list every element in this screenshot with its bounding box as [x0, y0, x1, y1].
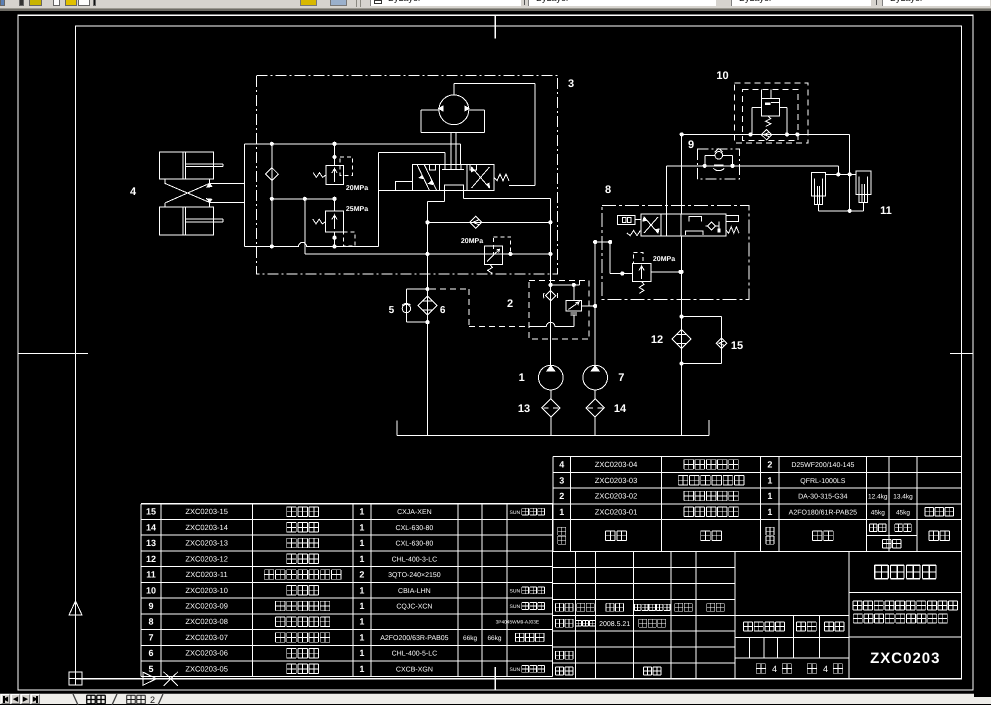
svg-text:1: 1: [559, 507, 564, 517]
svg-text:5: 5: [148, 664, 153, 674]
lift directional valve 6/3: [618, 214, 739, 236]
relief valve 25MPa (steering): [313, 199, 368, 247]
parts list table (items 5-15) grid: [141, 504, 553, 677]
wire motor feedback loop: [454, 84, 535, 186]
svg-text:9: 9: [148, 601, 153, 611]
label 10: [716, 70, 728, 82]
svg-text:1: 1: [359, 507, 364, 517]
centering tick right: [950, 353, 973, 355]
svg-text:SUN: SUN: [510, 604, 521, 610]
svg-text:12: 12: [651, 334, 663, 346]
relief valve 20MPa (lift): [633, 253, 683, 294]
label 5: [389, 305, 395, 316]
svg-text:ZXC0203-06: ZXC0203-06: [185, 649, 228, 658]
label 6: [440, 305, 446, 316]
steering cylinders 4 (double acting pair): [160, 152, 224, 235]
one-way throttle valve 9 dashed box: [698, 149, 740, 179]
balance valve 10 dashed boxes: [735, 83, 809, 143]
wire valve A-port bypass vertical: [377, 153, 379, 247]
svg-text:D25WF200/140-145: D25WF200/140-145: [791, 461, 854, 469]
wire top supply line: [244, 142, 460, 146]
svg-text:ZXC0203: ZXC0203: [870, 650, 940, 667]
top toolbar strip (cropped): [0, 0, 991, 11]
svg-text:ZXC0203-14: ZXC0203-14: [185, 523, 228, 532]
title block row 审核 label: [556, 651, 573, 659]
svg-text:DA-30-315-G34: DA-30-315-G34: [798, 493, 848, 500]
svg-text:4: 4: [823, 664, 828, 674]
centering tick bottom: [494, 667, 496, 690]
svg-text:2008.5.21: 2008.5.21: [599, 621, 630, 628]
telescopic lift cylinder left: [811, 173, 825, 211]
svg-text:7: 7: [618, 372, 624, 384]
label 11: [880, 205, 892, 217]
svg-text:ZXC0203-07: ZXC0203-07: [185, 633, 228, 642]
svg-text:6: 6: [440, 305, 446, 316]
svg-text:3: 3: [559, 475, 564, 485]
svg-text:4: 4: [772, 664, 777, 674]
label 13: [518, 403, 530, 415]
balance valve 10 internals: [752, 89, 787, 139]
svg-text:20MPa: 20MPa: [653, 256, 675, 263]
label 8: [605, 184, 611, 196]
svg-text:4: 4: [130, 186, 137, 198]
check valve on branch (box 3 left): [265, 144, 278, 249]
svg-text:1: 1: [767, 491, 772, 501]
UCS icon: [69, 601, 157, 685]
label 7: [618, 372, 624, 384]
svg-text:13: 13: [146, 538, 156, 548]
svg-text:14: 14: [614, 403, 627, 415]
label 2: [507, 298, 513, 310]
svg-text:10: 10: [146, 585, 156, 595]
svg-text:3P4045WM9-AJ03E: 3P4045WM9-AJ03E: [496, 620, 539, 626]
label 9: [688, 139, 694, 151]
svg-text:2: 2: [507, 298, 513, 310]
svg-text:1: 1: [519, 372, 525, 384]
svg-text:ZXC0203-01: ZXC0203-01: [595, 507, 638, 516]
wire lift valve return to tank: [680, 236, 684, 435]
svg-text:ZXC0203-04: ZXC0203-04: [595, 460, 638, 469]
svg-text:1: 1: [359, 538, 364, 548]
wire cylinder A port to bus: [210, 182, 245, 184]
bypass check valve 15: [682, 317, 727, 364]
svg-text:1: 1: [359, 522, 364, 532]
title block university name 长沙大学: [875, 565, 936, 579]
suction strainer 14: [586, 399, 604, 436]
svg-text:8: 8: [605, 184, 611, 196]
svg-text:ZXC0203-11: ZXC0203-11: [186, 570, 228, 579]
wire valve tank stubs: [428, 185, 551, 201]
title block row 工艺/批准 labels: [556, 667, 662, 675]
bypass check valve (tank link): [428, 216, 551, 228]
svg-text:ZXC0203-05: ZXC0203-05: [185, 664, 228, 673]
svg-text:A2FO200/63R-PAB05: A2FO200/63R-PAB05: [380, 634, 448, 642]
title block grid: [553, 552, 962, 679]
svg-text:1: 1: [359, 632, 364, 642]
svg-text:CXJA-XEN: CXJA-XEN: [397, 509, 432, 516]
label 3: [568, 78, 574, 90]
svg-text:1: 1: [359, 601, 364, 611]
unloading valve group 2 dashed box: [529, 281, 589, 340]
wire balance line B: [682, 132, 850, 136]
svg-text:ZXC0203-09: ZXC0203-09: [185, 601, 228, 610]
centering tick left: [18, 353, 88, 355]
wire return line lower-left: [244, 242, 378, 248]
svg-text:ZXC0203-02: ZXC0203-02: [595, 491, 638, 500]
wire balance line down to cylinders: [848, 134, 852, 213]
svg-text:CQJC-XCN: CQJC-XCN: [396, 603, 432, 610]
svg-text:45kg: 45kg: [871, 509, 885, 516]
hydraulic pump 1: [539, 365, 564, 398]
svg-text:20MPa: 20MPa: [461, 238, 483, 245]
svg-text:20MPa: 20MPa: [346, 185, 368, 192]
wire lift service line A: [666, 164, 838, 168]
wire pump7 to lift valve: [595, 240, 632, 276]
relief valve 20MPa unloading (on pilot line): [461, 237, 511, 274]
svg-text:11: 11: [880, 205, 892, 217]
svg-text:45kg: 45kg: [896, 509, 910, 516]
dashed enclosure box 3 (steering valve unit): [256, 76, 557, 274]
svg-text:14: 14: [146, 522, 156, 532]
wire left bus vertical: [243, 144, 245, 247]
wire to lift cylinders: [826, 166, 857, 177]
svg-text:2: 2: [559, 491, 564, 501]
svg-text:1: 1: [767, 475, 772, 485]
svg-text:SUN: SUN: [510, 667, 521, 673]
svg-text:2: 2: [359, 570, 364, 580]
svg-text:7: 7: [148, 632, 153, 642]
svg-text:ZXC0203-08: ZXC0203-08: [185, 617, 228, 626]
svg-text:12: 12: [146, 554, 156, 564]
svg-text:CBIA-LHN: CBIA-LHN: [398, 588, 431, 595]
svg-text:66kg: 66kg: [463, 635, 477, 642]
svg-text:6: 6: [148, 648, 153, 658]
suction strainer 13: [542, 399, 560, 436]
upper parts table rows text: [559, 459, 953, 516]
title block 阶段标记/重量/比例 labels: [744, 622, 845, 631]
wire relief branch middle: [272, 197, 337, 201]
steering directional valve 6/3: [378, 164, 509, 190]
upper parts table (items 1-4) grid: [553, 457, 962, 552]
pilot dashed line to unloading valve: [430, 289, 529, 326]
svg-text:CXCB-XGN: CXCB-XGN: [396, 666, 433, 673]
svg-text:4: 4: [559, 459, 564, 469]
svg-text:1: 1: [767, 507, 772, 517]
relief valve 20MPa (steering): [313, 144, 368, 192]
title block drawing number ZXC0203: [870, 650, 940, 667]
svg-text:CXL-630-80: CXL-630-80: [396, 541, 434, 548]
svg-text:5: 5: [389, 305, 395, 316]
svg-text:8: 8: [148, 617, 153, 627]
svg-text:25MPa: 25MPa: [346, 206, 368, 213]
label 12: [651, 334, 663, 346]
svg-text:12.4kg: 12.4kg: [868, 493, 888, 500]
label 15: [731, 340, 743, 352]
svg-text:CHL-400-3-LC: CHL-400-3-LC: [392, 556, 438, 563]
unloading valve group 2 internals: [529, 281, 597, 327]
svg-text:SUN: SUN: [510, 510, 521, 516]
upper table header text: [558, 524, 950, 548]
wire cylinder rod-end line: [818, 210, 863, 212]
svg-text:A2FO180/61R-PAB25: A2FO180/61R-PAB25: [789, 508, 857, 516]
svg-text:ZXC0203-12: ZXC0203-12: [185, 554, 228, 563]
svg-text:11: 11: [146, 570, 156, 580]
label 1: [519, 372, 525, 384]
svg-text:10: 10: [716, 70, 728, 82]
svg-text:15: 15: [146, 507, 156, 517]
svg-text:SUN: SUN: [510, 588, 521, 594]
return filter 6: [418, 296, 437, 315]
centering tick top: [494, 15, 496, 38]
bottom layout tab bar: [0, 693, 991, 704]
tank line: [397, 420, 709, 435]
svg-text:CHL-400-5-LC: CHL-400-5-LC: [392, 651, 438, 658]
UCS X mark: [164, 672, 179, 686]
svg-text:1: 1: [359, 664, 364, 674]
svg-text:ZXC0203-10: ZXC0203-10: [185, 586, 228, 595]
svg-text:ZXC0203-13: ZXC0203-13: [185, 539, 228, 548]
telescopic lift cylinder right: [856, 171, 871, 211]
svg-text:ZXC0203-03: ZXC0203-03: [595, 476, 638, 485]
svg-text:2: 2: [767, 459, 772, 469]
wire pump 1 pressure line: [548, 199, 552, 366]
wire pilot line to relief 20MPa: [305, 252, 553, 256]
dashed enclosure box 8 (lift valve unit): [602, 205, 749, 299]
wire cylinder B port to bus: [210, 202, 245, 204]
gerotor steering motor: [421, 84, 485, 133]
svg-text:9: 9: [688, 139, 694, 151]
suction check valve 5: [402, 289, 427, 322]
svg-text:ZXC0203-15: ZXC0203-15: [185, 507, 228, 516]
title block row 标记/处数/分区 labels: [556, 603, 725, 611]
wire pump 7 pressure line: [593, 240, 597, 365]
title block sheet count 共4张第4张: [756, 664, 843, 674]
title block drawing title two lines: [853, 601, 958, 623]
wire motor pilot drops: [378, 133, 460, 165]
one-way throttle valve 9 internals: [705, 149, 733, 171]
label 14: [614, 403, 627, 415]
wire lift valve supply: [665, 166, 667, 236]
svg-text:1: 1: [359, 585, 364, 595]
parts list table rows text: [146, 507, 545, 674]
wire riser to balance line: [680, 132, 684, 214]
svg-text:13: 13: [518, 403, 530, 415]
wire drop to pilot line: [304, 199, 306, 254]
return filter 12: [672, 329, 691, 348]
svg-text:3: 3: [568, 78, 574, 90]
svg-text:CXL-630-80: CXL-630-80: [396, 525, 434, 532]
svg-text:1: 1: [359, 648, 364, 658]
wire steering return bus: [425, 202, 429, 436]
svg-text:1: 1: [359, 554, 364, 564]
svg-text:13.4kg: 13.4kg: [893, 493, 913, 500]
svg-text:QFRL-1000LS: QFRL-1000LS: [800, 478, 845, 485]
hydraulic pump 7: [583, 365, 608, 398]
label 4: [130, 186, 137, 198]
svg-text:15: 15: [731, 340, 743, 352]
svg-text:66kg: 66kg: [487, 635, 501, 642]
svg-text:1: 1: [359, 617, 364, 627]
svg-text:3QTO-240×2150: 3QTO-240×2150: [388, 572, 441, 579]
title block row 设计 labels: [556, 619, 666, 628]
